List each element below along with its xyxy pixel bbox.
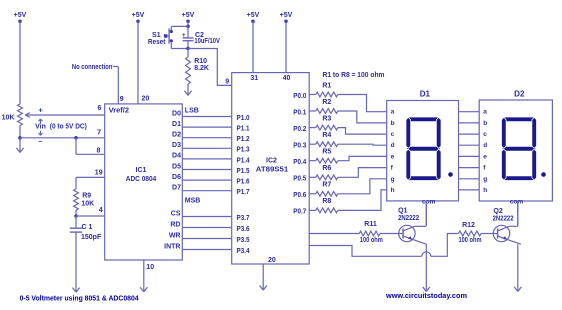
svg-text:LSB: LSB — [185, 108, 199, 115]
wiper arrow wire to pin 6 — [25, 113, 105, 118]
resistor R1 — [309, 82, 338, 97]
display D2 body — [479, 100, 552, 201]
wire R8 to segment h — [338, 190, 387, 211]
svg-text:www.circuitstoday.com: www.circuitstoday.com — [385, 291, 467, 300]
wire D2 to P1.2 — [182, 137, 231, 139]
IC2 pin label P1.1 — [237, 126, 250, 133]
capacitor C2 — [183, 26, 194, 48]
svg-text:150pF: 150pF — [81, 234, 102, 241]
IC1 pin label D2 — [172, 132, 181, 139]
IC2 pin label P0.0 — [293, 93, 306, 100]
svg-text:D2: D2 — [172, 132, 181, 139]
svg-text:WR: WR — [169, 232, 181, 239]
svg-text:h: h — [391, 187, 395, 194]
label 10uF/10V — [194, 38, 220, 45]
svg-text:No connection: No connection — [72, 64, 113, 71]
D2 com wire — [517, 201, 519, 226]
svg-text:P3.5: P3.5 — [237, 237, 250, 244]
resistor R8 — [309, 198, 338, 213]
capacitor C2 plus mark — [182, 32, 186, 39]
svg-text:P1.1: P1.1 — [237, 126, 250, 133]
svg-text:9: 9 — [120, 96, 124, 103]
IC2 pin label P0.7 — [293, 209, 306, 216]
svg-text:R10: R10 — [194, 58, 207, 65]
wire R4 to segment d — [338, 144, 387, 145]
svg-text:R11: R11 — [364, 221, 377, 228]
wire R9 to junction — [75, 210, 77, 216]
D1 segment pin c — [391, 131, 395, 138]
wire D1 to D2 segment e — [459, 155, 480, 157]
svg-text:D4: D4 — [172, 153, 181, 160]
IC1 pin 10 number — [146, 264, 154, 271]
svg-text:MSB: MSB — [185, 198, 201, 205]
label Q2 2N2222 — [493, 216, 514, 223]
website text — [385, 291, 467, 300]
ground (IC1 pin 10) — [140, 287, 147, 292]
D1 segment pin d — [391, 142, 395, 149]
junction node pin7/pin8 — [74, 136, 78, 140]
wire D7 to P1.7 — [182, 190, 231, 192]
switch S1 bar and button — [164, 28, 169, 43]
potentiometer 10K — [2, 104, 23, 126]
junction S1/C2/R10/pin9 — [186, 47, 190, 51]
wire D1 to D2 segment c — [459, 133, 480, 135]
svg-text:R5: R5 — [322, 149, 331, 156]
label D1 — [420, 90, 431, 99]
resistor R9 — [74, 189, 95, 210]
svg-text:D3: D3 — [172, 142, 181, 149]
IC2 pin 9 number — [225, 79, 229, 86]
IC1 pin label RD — [170, 221, 180, 228]
svg-text:com: com — [422, 198, 436, 205]
IC2 pin label P1.3 — [237, 147, 250, 154]
IC1 pin 7 number — [97, 130, 101, 137]
transistor Q1 2N2222 — [399, 225, 427, 244]
wire R7 to segment g — [338, 179, 387, 194]
IC2 pin 20 wire — [262, 264, 264, 290]
svg-text:8.2K: 8.2K — [194, 65, 209, 72]
IC1 pin label INTR — [164, 243, 180, 250]
IC2 pin label P3.7 — [237, 215, 250, 222]
svg-text:+: + — [38, 105, 43, 114]
IC2 pin label P0.5 — [293, 176, 306, 183]
svg-text:R1 to R8 = 100 ohm: R1 to R8 = 100 ohm — [323, 72, 385, 79]
svg-text:d: d — [391, 142, 395, 149]
wire S1 bottom — [171, 42, 188, 48]
IC U2 AT89S51 body — [232, 73, 310, 264]
svg-text:RD: RD — [170, 221, 180, 228]
svg-text:100 ohm: 100 ohm — [459, 237, 482, 244]
D2 segment pin h — [483, 187, 487, 194]
svg-text:P1.5: P1.5 — [237, 168, 250, 175]
junction +5V/S1/C2 top — [186, 25, 190, 29]
IC2 pin label P0.3 — [293, 143, 306, 150]
svg-text:P0.3: P0.3 — [293, 143, 306, 150]
svg-text:R12: R12 — [462, 222, 475, 229]
IC U1 ADC0804 body — [105, 104, 183, 260]
IC1 pin label D7 — [172, 185, 181, 192]
D1 segment pin b — [391, 120, 395, 127]
up arrow (Vin annotation) — [39, 119, 43, 124]
IC2 pin label P1.5 — [237, 168, 250, 175]
IC1 pin label D1 — [172, 121, 181, 128]
IC2 pin label P3.4 — [237, 248, 250, 255]
IC1 pin label CS — [171, 210, 181, 217]
wire junction down to R10 — [187, 49, 189, 58]
seven-segment digit D2 — [502, 117, 537, 181]
svg-text:0-5 Voltmeter using 8051 & ADC: 0-5 Voltmeter using 8051 & ADC0804 — [20, 293, 140, 302]
resistor R12 — [459, 222, 482, 244]
svg-text:c: c — [391, 131, 395, 138]
wire R12 to Q2 base — [481, 233, 493, 235]
wire reset to IC2 pin 9 — [188, 49, 232, 86]
IC1 pin 19 number — [95, 170, 103, 177]
svg-text:20: 20 — [268, 257, 276, 264]
svg-text:D7: D7 — [172, 185, 181, 192]
display D1 body — [387, 101, 459, 201]
Q2 collector wire — [509, 201, 518, 226]
wire D1 to D2 segment f — [459, 167, 480, 169]
svg-text:CS: CS — [171, 210, 181, 217]
label Q1 — [398, 208, 407, 215]
svg-text:Reset: Reset — [148, 39, 166, 46]
wire D1 to D2 segment h — [459, 189, 480, 191]
svg-text:8: 8 — [96, 148, 100, 155]
D2 segment pin e — [483, 153, 487, 160]
D2 segment pin f — [483, 165, 486, 172]
svg-text:10K: 10K — [2, 115, 15, 122]
Q2 emitter wire to ground — [517, 244, 519, 291]
svg-text:Q2: Q2 — [493, 208, 502, 215]
IC2 pin label P3.6 — [237, 226, 250, 233]
IC2 pin label P0.1 — [293, 109, 306, 116]
label com D1 — [422, 198, 436, 205]
IC2 pin label P0.4 — [293, 159, 306, 166]
svg-text:R8: R8 — [322, 198, 331, 205]
wire INTR to P3 — [182, 249, 231, 251]
IC1 pin 8 number — [96, 148, 100, 155]
+5V supply (IC1 pin 20) — [132, 12, 145, 104]
IC2 pin label P1.7 — [237, 189, 250, 196]
wire R11 to Q1 base — [380, 233, 399, 235]
resistor R2 — [309, 99, 338, 114]
svg-text:g: g — [483, 176, 487, 183]
label C2 — [195, 32, 204, 39]
svg-text:7: 7 — [97, 130, 101, 137]
decimal point D1 — [448, 172, 453, 177]
label Q2 — [493, 208, 502, 215]
svg-text:+5V: +5V — [182, 12, 195, 19]
D2 segment pin a — [483, 109, 487, 116]
ground (potentiometer) — [16, 148, 23, 153]
wire D1 to D2 segment d — [459, 144, 480, 146]
wire P3.2 to R11 — [309, 233, 359, 235]
wire D6 to P1.6 — [182, 179, 231, 181]
wire D1 to P1.1 — [182, 126, 231, 128]
wire D3 to P1.3 — [182, 147, 231, 149]
svg-text:R7: R7 — [322, 182, 331, 189]
svg-text:e: e — [391, 153, 395, 160]
svg-text:D0: D0 — [172, 110, 181, 117]
svg-text:c: c — [483, 131, 487, 138]
wire D1 to D2 segment g — [459, 178, 480, 180]
svg-text:P0.5: P0.5 — [293, 176, 306, 183]
IC1 pin 10 wire — [143, 260, 145, 292]
svg-text:R6: R6 — [322, 165, 331, 172]
svg-text:2N2222: 2N2222 — [398, 215, 419, 222]
svg-text:P3.6: P3.6 — [237, 226, 250, 233]
label MSB — [185, 198, 201, 205]
svg-text:P1.4: P1.4 — [237, 157, 250, 164]
ground (Q1 emitter) — [423, 287, 430, 292]
D1 segment pin a — [391, 109, 395, 116]
D1 segment pin f — [391, 165, 394, 172]
svg-text:P1.2: P1.2 — [237, 136, 250, 143]
svg-text:+5V: +5V — [280, 12, 293, 19]
label 10K wiper + mark — [38, 105, 43, 114]
+5V supply (reset) — [182, 12, 195, 26]
IC1 pin 6 number — [97, 105, 101, 112]
svg-text:D1: D1 — [172, 121, 181, 128]
IC2 pin label P1.4 — [237, 157, 250, 164]
svg-text:20: 20 — [142, 96, 150, 103]
svg-text:d: d — [483, 142, 487, 149]
Q1 collector wire — [415, 201, 427, 226]
label LSB — [185, 108, 199, 115]
IC2 pin 40 number — [283, 75, 291, 82]
resistor R3 — [309, 115, 338, 130]
Q1 emitter wire to ground — [425, 244, 427, 291]
IC1 pin label D6 — [172, 174, 181, 181]
label D2 — [514, 90, 525, 99]
svg-text:(0 to 5V DC): (0 to 5V DC) — [50, 124, 87, 131]
wire P3.1 to R12 — [309, 234, 458, 257]
svg-text:a: a — [391, 109, 395, 116]
wire R3 to segment c — [338, 128, 387, 135]
D2 segment pin d — [483, 142, 487, 149]
svg-text:P1.0: P1.0 — [237, 115, 250, 122]
wire junction to pin 4 — [76, 215, 105, 217]
IC2 pin label P1.6 — [237, 179, 250, 186]
capacitor C1 — [70, 216, 102, 292]
svg-text:+5V: +5V — [14, 12, 27, 19]
svg-text:19: 19 — [95, 170, 103, 177]
svg-text:b: b — [483, 120, 487, 127]
svg-text:h: h — [483, 187, 487, 194]
svg-text:10: 10 — [146, 264, 154, 271]
wire R5 to segment e — [338, 156, 387, 160]
D1 segment pin e — [391, 153, 395, 160]
svg-text:INTR: INTR — [164, 243, 180, 250]
wire R10 to ground — [187, 84, 189, 95]
label - mark — [39, 140, 43, 142]
D2 segment pin c — [483, 131, 487, 138]
IC1 pin 20 number — [142, 96, 150, 103]
wire D5 to P1.5 — [182, 169, 231, 171]
svg-text:4: 4 — [99, 207, 103, 214]
svg-text:31: 31 — [250, 75, 258, 82]
IC1 pin 4 number — [99, 207, 103, 214]
IC1 pin label D5 — [172, 163, 181, 170]
D2 segment pin g — [483, 176, 487, 183]
svg-text:2N2222: 2N2222 — [493, 216, 514, 223]
svg-text:D1: D1 — [420, 90, 431, 99]
svg-text:com: com — [510, 198, 524, 205]
IC2 pin label P3.5 — [237, 237, 250, 244]
wire Vin- to pin 7 — [20, 137, 105, 139]
IC1 pin label WR — [169, 232, 181, 239]
svg-text:a: a — [483, 109, 487, 116]
resistor R11 — [359, 221, 383, 244]
svg-text:P3.7: P3.7 — [237, 215, 250, 222]
wire WR to P3 — [182, 238, 231, 240]
svg-text:Q1: Q1 — [398, 208, 407, 215]
svg-text:D6: D6 — [172, 174, 181, 181]
svg-text:R2: R2 — [322, 99, 331, 106]
resistor R6 — [309, 165, 338, 180]
svg-text:P3.4: P3.4 — [237, 248, 250, 255]
wire CS to P3 — [182, 216, 231, 218]
svg-text:6: 6 — [97, 105, 101, 112]
wire D0 to P1.0 — [182, 116, 231, 118]
label R1 to R8 = 100 ohm — [323, 72, 385, 79]
svg-text:R4: R4 — [322, 132, 331, 139]
resistor R5 — [309, 149, 338, 164]
svg-text:P1.7: P1.7 — [237, 189, 250, 196]
D1 com wire — [425, 201, 427, 226]
svg-text:ADC 0804: ADC 0804 — [126, 176, 157, 183]
transistor Q2 2N2222 — [493, 225, 521, 244]
label Vin — [35, 123, 46, 130]
title text — [20, 293, 140, 302]
ground (IC2 pin 20) — [260, 286, 267, 291]
IC1 pin 9 number — [120, 96, 124, 103]
svg-text:e: e — [483, 153, 487, 160]
svg-text:g: g — [391, 176, 395, 183]
label ADC 0804 — [126, 176, 157, 183]
svg-text:100 ohm: 100 ohm — [360, 237, 383, 244]
label IC2 — [266, 158, 277, 165]
IC2 pin label P0.6 — [293, 192, 306, 199]
wire pin 19 — [76, 176, 105, 178]
seven-segment digit D1 — [406, 117, 441, 181]
svg-text:IC1: IC1 — [136, 167, 147, 174]
IC2 pin label P0.2 — [293, 126, 306, 133]
resistor R7 — [309, 182, 338, 197]
label (0 to 5V DC) — [50, 124, 87, 131]
IC1 pin label D0 — [172, 110, 181, 117]
svg-text:D2: D2 — [514, 90, 525, 99]
svg-text:P0.7: P0.7 — [293, 209, 306, 216]
IC2 pin 31 number — [250, 75, 258, 82]
svg-text:R1: R1 — [322, 82, 331, 89]
IC2 pin label P1.0 — [237, 115, 250, 122]
switch S1 terminals — [170, 30, 173, 43]
svg-text:R9: R9 — [82, 192, 91, 199]
ground (R10) — [184, 91, 191, 96]
wire D1 to D2 segment a — [459, 111, 480, 113]
junction pot/Vin- — [18, 136, 22, 140]
wire pot bottom — [19, 126, 21, 153]
+5V supply (potentiometer top) — [14, 12, 27, 104]
wire junction to pin 8 — [76, 138, 105, 155]
D1 segment pin h — [391, 187, 395, 194]
svg-text:R3: R3 — [322, 115, 331, 122]
wire D4 to P1.4 — [182, 158, 231, 160]
svg-text:10K: 10K — [81, 201, 94, 208]
svg-text:D5: D5 — [172, 163, 181, 170]
no-connection wire to pin 9 — [113, 67, 118, 104]
svg-text:P0.2: P0.2 — [293, 126, 306, 133]
label No connection — [72, 64, 113, 71]
svg-text:P0.0: P0.0 — [293, 93, 306, 100]
decimal point D2 — [541, 172, 546, 177]
D2 segment pin b — [483, 120, 487, 127]
resistor R10 — [186, 57, 209, 84]
svg-text:+5V: +5V — [247, 12, 260, 19]
svg-text:C 1: C 1 — [82, 224, 93, 231]
D1 segment pin g — [391, 176, 395, 183]
wire R2 to segment b — [338, 111, 387, 123]
wire R6 to segment f — [338, 168, 387, 178]
wire D1 to D2 segment b — [459, 122, 480, 124]
resistor R4 — [309, 132, 338, 147]
ground (C1) — [72, 288, 79, 293]
wire RD to P3 — [182, 227, 231, 229]
wire pin19 to R9 — [75, 177, 77, 189]
label com D2 — [510, 198, 524, 205]
svg-text:P1.3: P1.3 — [237, 147, 250, 154]
wire to S1 top — [171, 26, 188, 30]
svg-text:40: 40 — [283, 75, 291, 82]
wire R1 to segment a — [338, 95, 387, 112]
svg-text:P1.6: P1.6 — [237, 179, 250, 186]
svg-text:P0.6: P0.6 — [293, 192, 306, 199]
svg-text:9: 9 — [225, 79, 229, 86]
ground (Q2 emitter) — [514, 287, 521, 292]
IC2 pin label P1.2 — [237, 136, 250, 143]
label Vref/2 — [109, 108, 130, 115]
svg-text:Vin: Vin — [35, 123, 46, 130]
+5V supply (IC2 pin 31) — [247, 12, 260, 73]
svg-text:IC2: IC2 — [266, 158, 277, 165]
svg-text:AT89S51: AT89S51 — [256, 167, 289, 174]
down arrow (Vin annotation) — [39, 131, 43, 136]
+5V supply (IC2 pin 40) — [280, 12, 293, 73]
svg-text:10uF/10V: 10uF/10V — [194, 38, 220, 45]
IC2 pin 20 number — [268, 257, 276, 264]
svg-text:b: b — [391, 120, 395, 127]
svg-text:+5V: +5V — [132, 12, 145, 19]
IC1 pin label D4 — [172, 153, 181, 160]
label IC1 — [136, 167, 147, 174]
svg-text:P0.1: P0.1 — [293, 109, 306, 116]
svg-text:Vref/2: Vref/2 — [109, 108, 130, 115]
IC1 pin label D3 — [172, 142, 181, 149]
label AT89S51 — [256, 167, 289, 174]
svg-text:P0.4: P0.4 — [293, 159, 306, 166]
label Reset — [148, 39, 166, 46]
label S1 — [152, 32, 161, 39]
label Q1 2N2222 — [398, 215, 419, 222]
junction R9/C1/pin4 — [74, 214, 78, 218]
